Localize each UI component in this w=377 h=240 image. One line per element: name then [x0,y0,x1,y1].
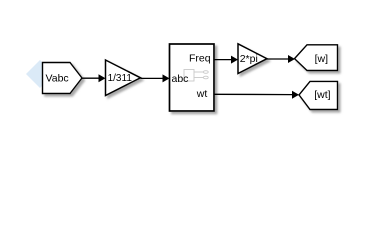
wire wt to [wt] [214,93,293,95]
arrowhead into gain1 [99,74,106,82]
svg-text:[w]: [w] [315,53,329,65]
Goto tag [w] [295,45,338,71]
svg-text:wt: wt [196,88,208,100]
svg-text:Freq: Freq [189,52,211,64]
watermark diamond [26,60,54,88]
wire Vabc to gain1 [82,77,99,79]
Goto tag [wt] [299,81,338,109]
gain G1 1/311 [106,60,141,96]
From tag Vabc [43,63,83,94]
wire gain1 to PLL block [141,77,164,79]
gain G2 2*pi [238,44,267,74]
arrowhead into PLL [163,74,170,82]
svg-text:abc: abc [172,73,189,85]
arrowhead into [w] [288,55,295,63]
arrowhead into gain2 [231,56,238,64]
wire gain2 to [w] [267,58,289,60]
arrowhead into [wt] [292,91,299,99]
PLL inner icon [184,70,208,82]
svg-text:2*pi: 2*pi [240,53,258,65]
PLL block U1 [170,44,215,111]
wire Freq to gain2 [214,59,232,61]
svg-text:Vabc: Vabc [46,73,69,85]
svg-text:1/311: 1/311 [108,73,133,84]
svg-text:[wt]: [wt] [314,89,330,101]
